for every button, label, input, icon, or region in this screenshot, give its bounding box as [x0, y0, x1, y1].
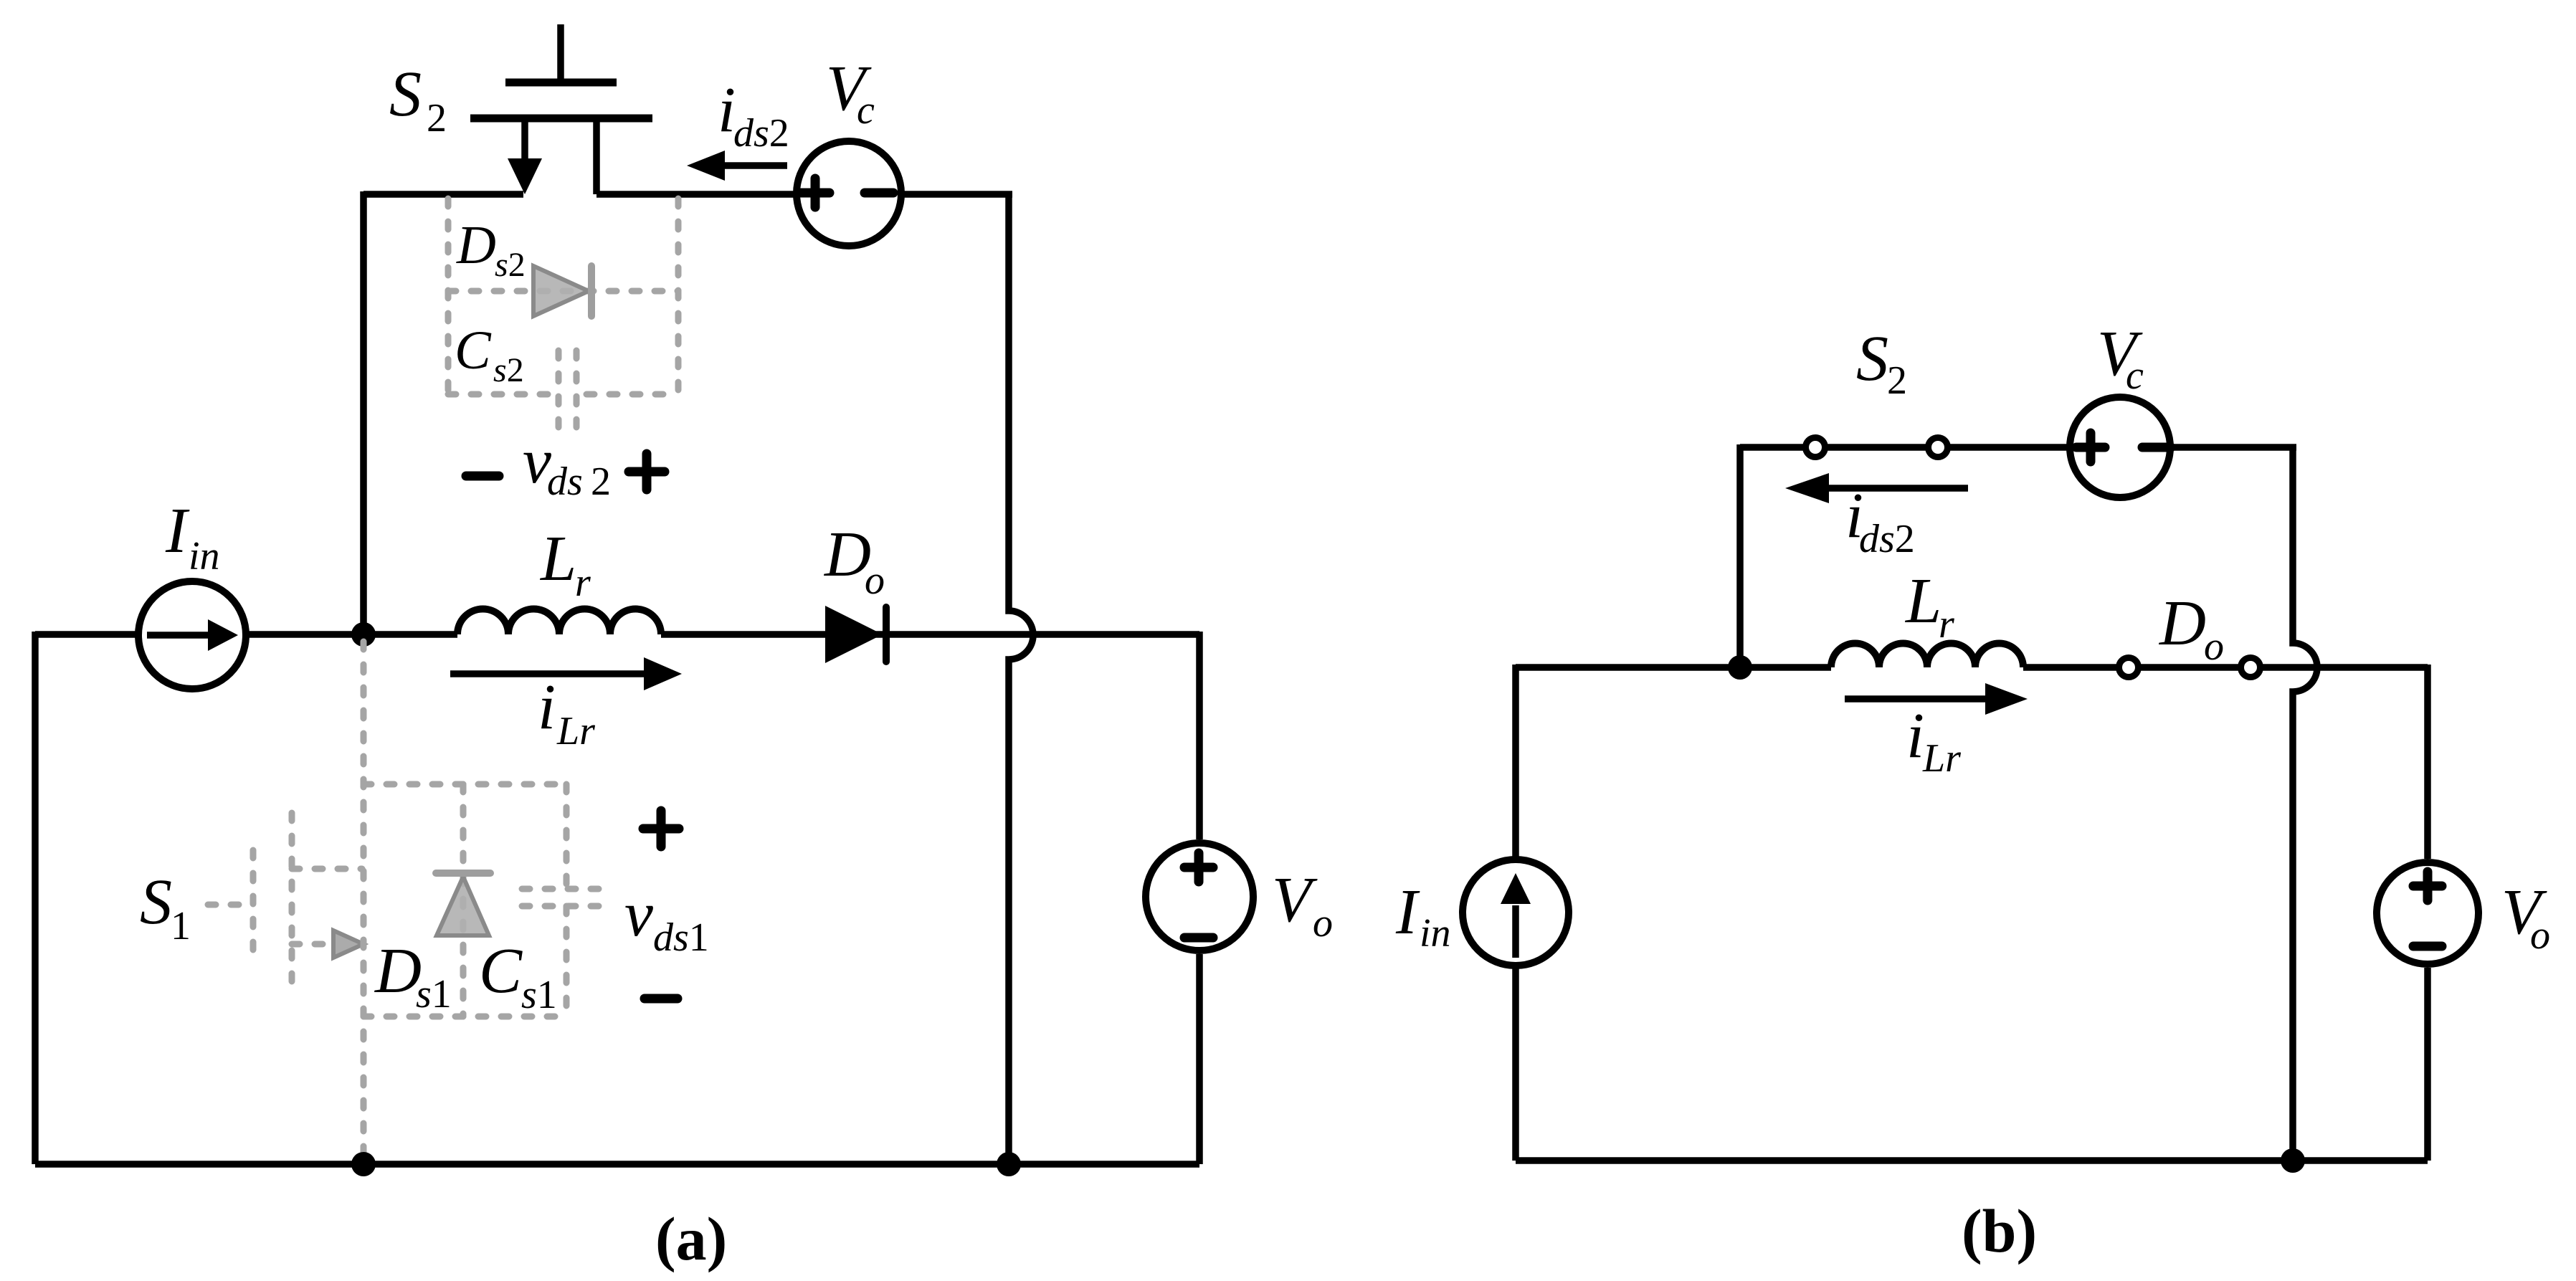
- svg-text:ds2: ds2: [1859, 517, 1915, 561]
- svg-text:s1: s1: [416, 972, 452, 1016]
- S1 source arrow: [333, 930, 363, 958]
- wire Vo bottom branch (a): [1196, 954, 1203, 1164]
- svg-text:V: V: [1272, 865, 1318, 935]
- label minus of vds1: [645, 994, 678, 1004]
- svg-text:(b): (b): [1962, 1196, 2037, 1265]
- dashed switch S1 symbol (a): [208, 813, 362, 988]
- wire right vertical with hop over middle wire (a): [1009, 191, 1033, 1164]
- diode Ds1 cathode bar: [436, 870, 490, 877]
- svg-text:(a): (a): [655, 1204, 727, 1273]
- inductor Lr (b): [1831, 644, 2023, 668]
- wire Vo top branch (b): [2424, 665, 2431, 859]
- svg-text:S: S: [389, 59, 422, 130]
- dashed snubber network Ds1/Cs1 wiring (a): [363, 642, 609, 1164]
- wire right vertical with hop (b): [2293, 444, 2317, 1161]
- svg-text:L: L: [1904, 566, 1941, 637]
- current source Iin (a): [138, 581, 246, 689]
- switch S2 contact circles (b): [1806, 438, 1825, 457]
- junction node right vertical / bottom wire (a): [997, 1152, 1021, 1176]
- label plus of vds2: [629, 454, 665, 490]
- diode Do (a): [825, 606, 886, 663]
- wire middle-right (b): [2023, 664, 2428, 671]
- svg-text:2: 2: [1887, 358, 1907, 403]
- svg-text:C: C: [455, 320, 492, 381]
- diode Do contact circles (b): [2119, 658, 2139, 677]
- svg-text:ds2: ds2: [733, 111, 789, 156]
- voltage source Vo (a): [1146, 843, 1253, 951]
- junction node S2 branch / middle wire (b): [1728, 655, 1752, 680]
- current arrow iLr (b): [1845, 683, 2028, 715]
- wire Vo bottom branch (b): [2424, 968, 2431, 1161]
- svg-text:ds1: ds1: [653, 915, 709, 960]
- current arrow iLr (a): [450, 657, 682, 690]
- svg-text:D: D: [456, 215, 496, 275]
- svg-text:C: C: [479, 935, 523, 1006]
- svg-text:r: r: [1939, 602, 1954, 647]
- wire bottom (b): [1516, 1157, 2428, 1164]
- svg-text:o: o: [2204, 624, 2224, 669]
- current source Iin (b): [1463, 859, 1569, 966]
- svg-text:o: o: [2530, 913, 2550, 958]
- wire top-left segment (a): [363, 191, 523, 198]
- svg-text:D: D: [374, 935, 422, 1006]
- dashed snubber network Ds2/Cs2 (a): [448, 199, 678, 436]
- wire Vo top branch (a): [1196, 632, 1203, 839]
- voltage source Vo (b): [2377, 862, 2478, 964]
- svg-text:i: i: [538, 672, 556, 743]
- inductor Lr (a): [457, 609, 661, 635]
- current arrow i_ds2 (a): [687, 151, 787, 181]
- transistor S2 (MOSFET): [470, 24, 652, 194]
- wire top-right segment (b): [2172, 444, 2296, 451]
- wire S2 left vertical (a): [360, 191, 367, 634]
- svg-text:L: L: [539, 523, 576, 594]
- svg-text:s2: s2: [493, 351, 524, 389]
- wire middle far-left (a): [35, 631, 138, 638]
- junction node at S2 branch / middle wire (a): [351, 622, 376, 647]
- svg-text:i: i: [1906, 700, 1924, 771]
- voltage source Vc (a): [797, 141, 901, 246]
- diode Ds2 triangle: [533, 266, 589, 316]
- wire middle-left (b): [1516, 664, 1831, 671]
- svg-text:s2: s2: [495, 246, 526, 284]
- wire left vertical bottom (b): [1512, 966, 1519, 1161]
- svg-text:o: o: [1313, 901, 1333, 946]
- svg-text:D: D: [823, 519, 871, 590]
- svg-text:S: S: [140, 867, 172, 938]
- junction node S1 branch / bottom wire (a): [351, 1152, 376, 1176]
- svg-text:2: 2: [591, 459, 611, 504]
- svg-text:I: I: [1395, 877, 1420, 948]
- svg-text:c: c: [2126, 353, 2144, 398]
- svg-text:s1: s1: [521, 973, 557, 1017]
- svg-text:Lr: Lr: [556, 709, 595, 753]
- current arrow ids2 (b): [1785, 473, 1968, 503]
- label minus of vds2: [466, 472, 499, 481]
- junction node right vertical / bottom wire (b): [2281, 1148, 2305, 1173]
- svg-text:2: 2: [427, 96, 447, 141]
- svg-text:1: 1: [171, 904, 191, 948]
- wire top-left segment (b): [1740, 444, 2068, 451]
- svg-text:r: r: [575, 561, 591, 605]
- wire S2 branch vertical (b): [1736, 444, 1744, 667]
- svg-text:o: o: [865, 558, 885, 603]
- wire top-mid segment (a): [597, 191, 794, 198]
- svg-text:I: I: [165, 495, 190, 566]
- svg-text:ds: ds: [547, 459, 583, 504]
- wire middle right (a): [661, 631, 1199, 638]
- svg-text:v: v: [624, 879, 653, 950]
- wire left vertical (a): [32, 632, 39, 1164]
- wire middle left (a): [247, 631, 457, 638]
- wire top-right segment (a): [903, 191, 1012, 198]
- svg-text:Lr: Lr: [1922, 736, 1961, 781]
- diode Ds2 cathode bar: [588, 266, 595, 316]
- wire left vertical top (b): [1512, 665, 1519, 859]
- svg-text:in: in: [189, 534, 220, 578]
- svg-text:c: c: [857, 88, 875, 133]
- wire bottom (a): [35, 1161, 1199, 1168]
- label plus of vds1: [643, 811, 679, 847]
- voltage source Vc (b): [2070, 397, 2171, 497]
- svg-text:in: in: [1420, 911, 1451, 956]
- svg-text:D: D: [2158, 588, 2206, 659]
- diode Ds1 triangle: [437, 877, 489, 935]
- svg-text:S: S: [1856, 323, 1888, 394]
